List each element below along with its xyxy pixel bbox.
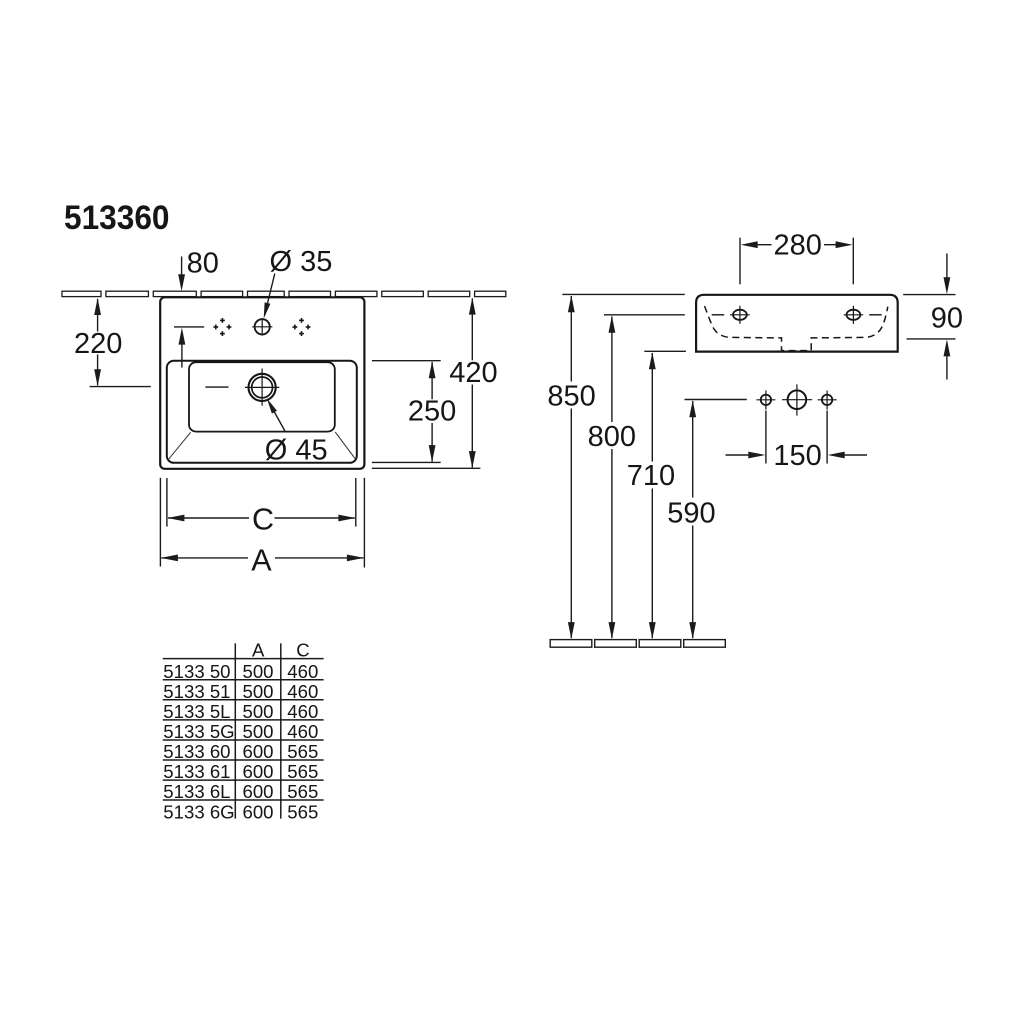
tap hole oval right (side view) <box>847 310 861 320</box>
svg-text:5133 6L: 5133 6L <box>163 781 230 802</box>
svg-text:5133 6G: 5133 6G <box>163 801 234 822</box>
svg-text:590: 590 <box>667 497 715 529</box>
dimension 80 <box>174 257 204 368</box>
tap hole small left (side view) <box>761 395 771 405</box>
dimension 850 <box>562 293 685 295</box>
svg-text:460: 460 <box>287 701 318 722</box>
tap hole circle Ø35 (front view) <box>255 319 270 334</box>
svg-text:5133 61: 5133 61 <box>163 761 230 782</box>
svg-text:Ø 45: Ø 45 <box>265 434 328 466</box>
dimension 220 <box>90 299 151 387</box>
svg-text:5133 51: 5133 51 <box>163 681 230 702</box>
hidden bowl outline dashed (side view) <box>705 306 888 351</box>
svg-text:500: 500 <box>242 701 273 722</box>
dimension 590 <box>685 399 747 401</box>
dimension C <box>167 478 356 527</box>
svg-text:5133 5G: 5133 5G <box>163 721 234 742</box>
dimension 800 <box>604 314 685 316</box>
tap hole mark left (front view) <box>213 318 231 336</box>
svg-text:565: 565 <box>287 781 318 802</box>
svg-text:150: 150 <box>773 440 821 472</box>
dimension 280 <box>740 238 853 285</box>
svg-text:A: A <box>251 543 272 577</box>
bowl slope line left <box>169 432 191 458</box>
dimension 710 <box>644 350 686 352</box>
svg-text:600: 600 <box>242 781 273 802</box>
svg-text:565: 565 <box>287 761 318 782</box>
svg-text:420: 420 <box>449 357 497 389</box>
tap hole oval left (side view) <box>733 310 747 320</box>
bowl slope line right <box>335 432 355 459</box>
svg-text:500: 500 <box>242 661 273 682</box>
svg-text:800: 800 <box>588 421 636 453</box>
wall tile hatch strip (front view) <box>62 291 506 296</box>
bowl bottom outline (front view) <box>189 362 335 431</box>
basin outer body (front view) <box>160 297 364 469</box>
drain hole Ø45 (front view) <box>249 374 276 401</box>
svg-text:460: 460 <box>287 721 318 742</box>
svg-text:5133 60: 5133 60 <box>163 741 230 762</box>
svg-text:80: 80 <box>187 247 219 279</box>
tap hole centre (side view) <box>788 390 807 409</box>
svg-text:600: 600 <box>242 801 273 822</box>
svg-text:500: 500 <box>242 721 273 742</box>
table rows <box>163 661 318 823</box>
dimension A <box>160 478 364 568</box>
svg-text:500: 500 <box>242 681 273 702</box>
svg-text:565: 565 <box>287 741 318 762</box>
floor tile hatch (side view) <box>550 640 725 648</box>
svg-text:460: 460 <box>287 661 318 682</box>
dimension 250 <box>372 361 441 463</box>
svg-text:C: C <box>296 640 309 661</box>
svg-text:565: 565 <box>287 801 318 822</box>
svg-text:600: 600 <box>242 761 273 782</box>
svg-text:600: 600 <box>242 741 273 762</box>
svg-text:280: 280 <box>774 230 822 262</box>
svg-text:Ø 35: Ø 35 <box>270 246 333 278</box>
svg-text:850: 850 <box>547 380 595 412</box>
table grid <box>163 643 324 818</box>
drain centreline dash <box>205 386 228 388</box>
dimension 90 <box>903 254 955 380</box>
svg-text:710: 710 <box>627 460 675 492</box>
svg-text:250: 250 <box>408 396 456 428</box>
svg-text:5133 50: 5133 50 <box>163 661 230 682</box>
svg-text:460: 460 <box>287 681 318 702</box>
svg-text:90: 90 <box>931 303 963 335</box>
svg-text:513360: 513360 <box>64 199 170 237</box>
svg-text:5133 5L: 5133 5L <box>163 701 230 722</box>
svg-text:A: A <box>252 640 265 661</box>
svg-text:220: 220 <box>74 328 122 360</box>
basin body (side view) <box>696 295 898 352</box>
bowl rim outline (front view) <box>167 361 357 463</box>
tap hole mark right (front view) <box>293 318 311 336</box>
dimension 420 <box>372 299 481 469</box>
svg-text:C: C <box>252 503 274 537</box>
dimension 150 <box>726 411 868 464</box>
tap hole small right (side view) <box>822 395 832 405</box>
